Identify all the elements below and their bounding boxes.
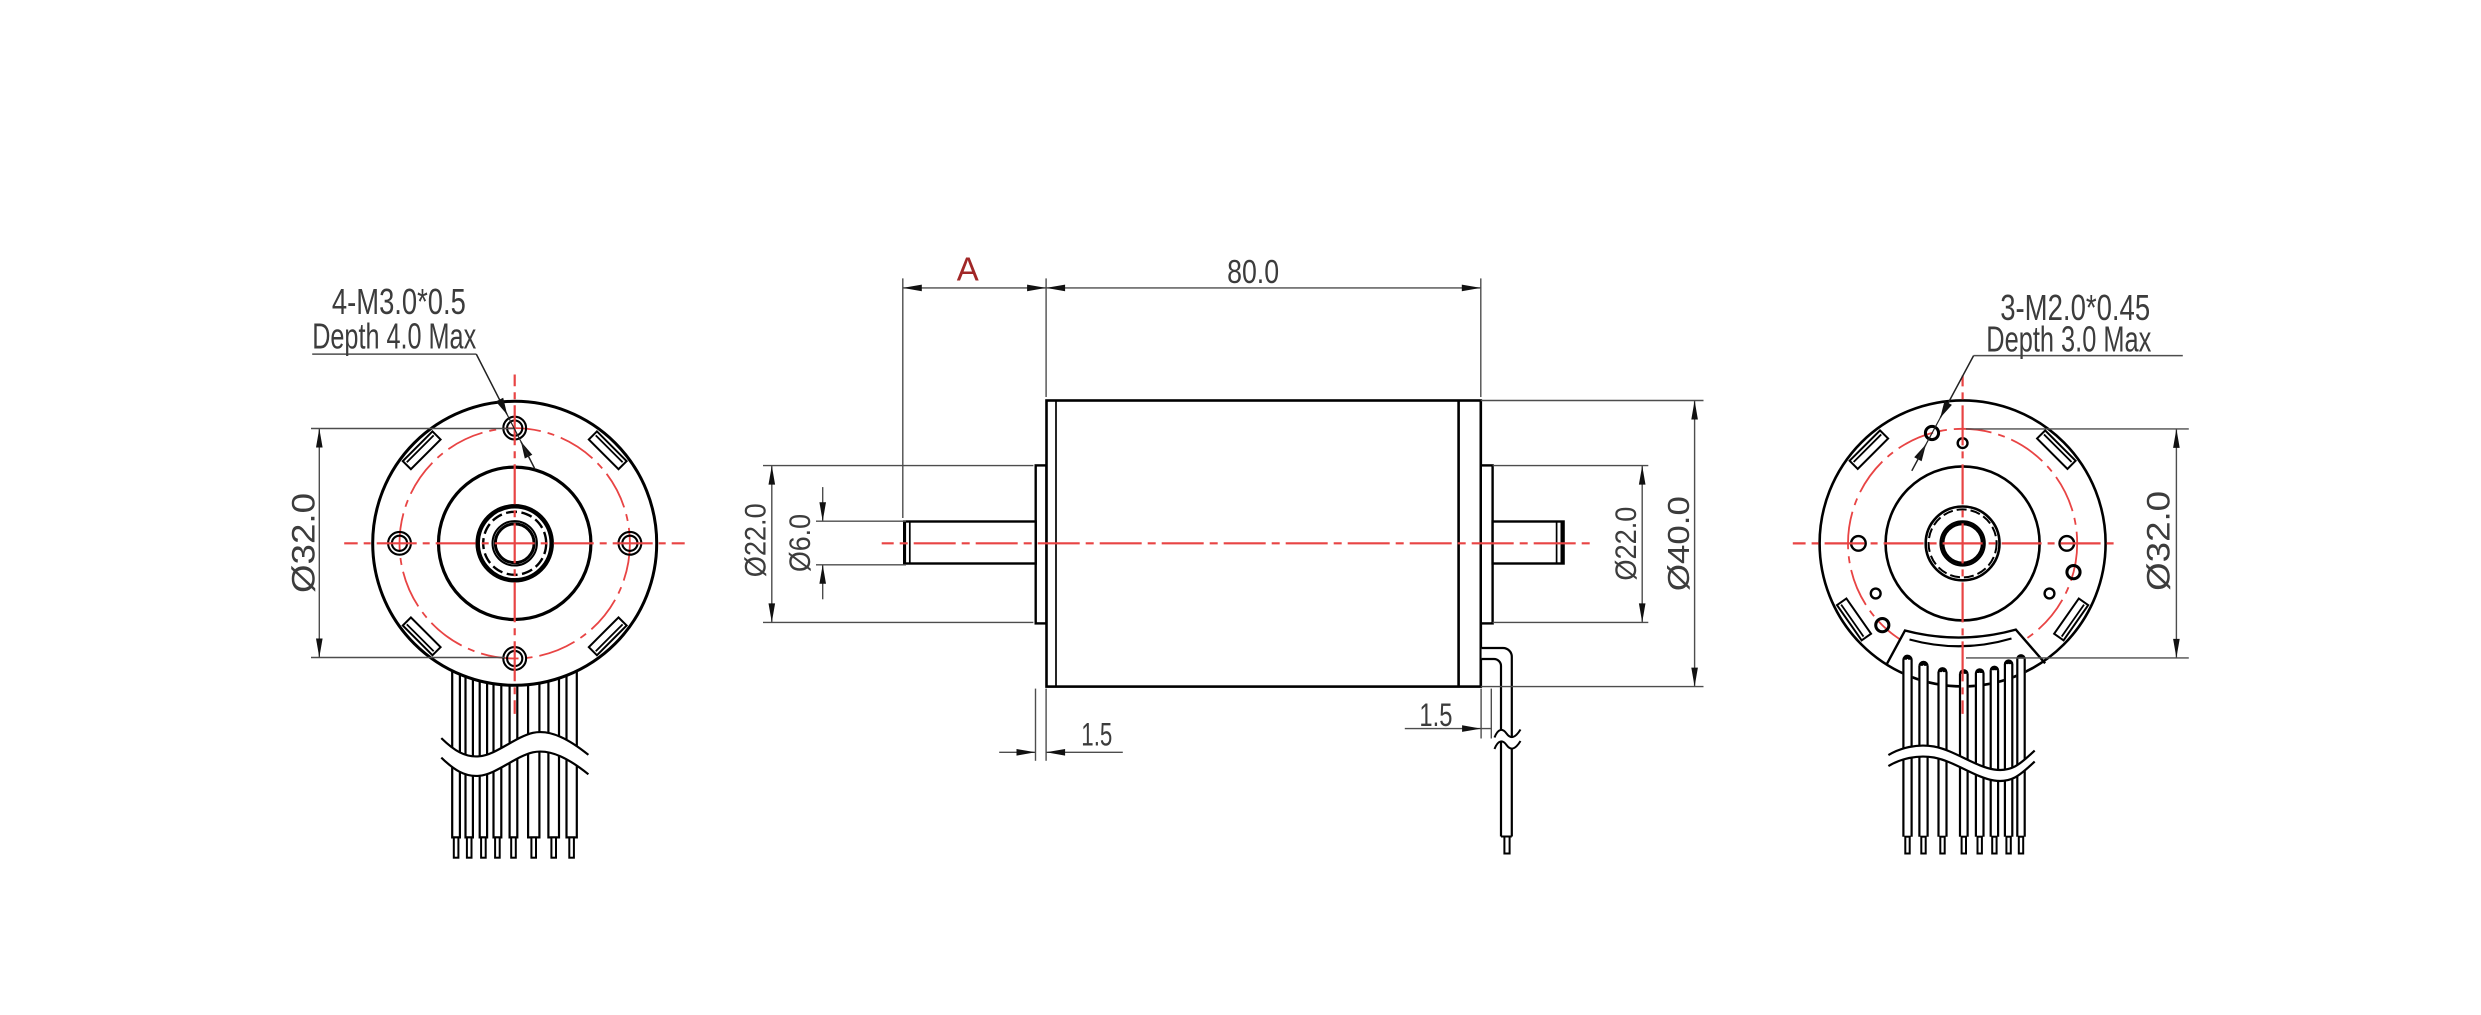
dimension 80.0 (body length)	[1480, 278, 1482, 397]
dimension 1.5 (left flange)	[1035, 689, 1037, 761]
left shaft	[904, 522, 1035, 564]
side wire bare pin	[1504, 837, 1509, 854]
right view end-bell circle	[1886, 466, 2040, 620]
right view rim slots (4 vents)	[2037, 430, 2076, 469]
right view wire exit boot	[1886, 630, 2045, 683]
right view side through holes (2x)	[2060, 536, 2075, 551]
right shaft stub	[1493, 522, 1564, 564]
dimension Ø22.0 (left boss)	[763, 465, 1033, 467]
svg-text:Ø32.0: Ø32.0	[2141, 491, 2177, 591]
left cable break (wave) symbol	[441, 732, 588, 776]
svg-text:Ø6.0: Ø6.0	[784, 514, 817, 572]
svg-text:Depth 3.0 Max: Depth 3.0 Max	[1986, 318, 2151, 359]
svg-text:Ø22.0: Ø22.0	[739, 503, 772, 577]
dimension Ø40.0 (body dia)	[1481, 400, 1704, 402]
left view M3 mounting holes (4x)	[619, 532, 642, 555]
right view bearing boss	[1926, 507, 2000, 581]
left wire bundle (8 lead wires)	[452, 600, 460, 837]
side view lead wire with elbow	[1482, 648, 1512, 837]
left view rim slots (4 vents)	[589, 431, 627, 469]
dimension A (shaft length)	[902, 278, 904, 518]
side wire break symbol	[1495, 730, 1521, 750]
left view end-bell circle	[439, 467, 591, 619]
svg-text:Depth 4.0 Max: Depth 4.0 Max	[312, 316, 476, 357]
side view of motor	[739, 250, 1703, 853]
side view red centerline	[882, 542, 1591, 544]
dimension Ø32.0 (left view bolt circle)	[311, 428, 515, 430]
right wire bare pins	[1905, 837, 1909, 854]
leader for 3-M2.0*0.45 callout	[1974, 355, 2183, 357]
svg-text:Ø22.0: Ø22.0	[1610, 507, 1643, 581]
svg-text:A: A	[957, 250, 979, 287]
dimension Ø32.0 (right view bolt circle)	[1966, 428, 2189, 430]
left view red centerlines	[344, 542, 685, 544]
right view bolt circle (red dashed)	[1848, 429, 2077, 658]
right wire bundle (8 lead wires with terminals)	[1902, 655, 1912, 837]
motor body	[1047, 401, 1481, 687]
svg-text:80.0: 80.0	[1227, 253, 1279, 290]
left view bearing boss	[478, 506, 552, 580]
svg-text:Ø40.0: Ø40.0	[1661, 496, 1696, 591]
right view: rear face of motor	[1793, 287, 2189, 854]
left view: front face of motor	[286, 281, 685, 858]
dimension 1.5 (right flange)	[1480, 689, 1482, 739]
svg-text:1.5: 1.5	[1419, 697, 1452, 733]
right view small holes (3x)	[1958, 438, 1968, 448]
dimension Ø6.0 (shaft dia)	[816, 520, 906, 522]
left wire bare pins	[454, 837, 459, 857]
dimension Ø22.0 (right boss)	[1493, 465, 1649, 467]
svg-text:Ø32.0: Ø32.0	[286, 493, 322, 593]
leader for 4-M3.0*0.5 callout	[312, 353, 476, 355]
right cable break (wave) symbol	[1888, 746, 2034, 781]
right view M2 tapped holes (3x)	[1925, 426, 1938, 439]
right view red centerlines	[1793, 542, 2114, 544]
left view bolt circle (red dashed)	[400, 428, 630, 658]
svg-text:1.5: 1.5	[1081, 717, 1112, 753]
right view outer housing circle	[1820, 400, 2106, 686]
left bearing boss (side)	[1036, 465, 1047, 623]
right bearing boss (side)	[1481, 465, 1493, 623]
left view outer housing circle	[373, 401, 657, 685]
